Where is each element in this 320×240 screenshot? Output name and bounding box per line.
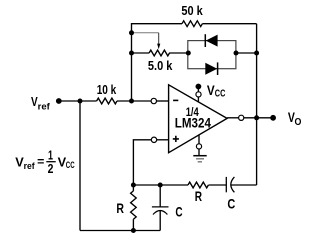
diode box rectangle — [188, 41, 236, 69]
diode D1 (top, pointing left) — [205, 34, 217, 47]
svg-text:R: R — [116, 200, 124, 216]
wire: top wire right segment — [202, 23, 256, 25]
wire: pot row left — [132, 52, 150, 54]
svg-text:C: C — [227, 196, 235, 212]
node: diode box left — [186, 51, 191, 56]
diode D2 (bottom, pointing right) — [205, 62, 217, 75]
svg-text:ref: ref — [38, 101, 51, 111]
svg-text:CC: CC — [66, 160, 75, 170]
node: RC row left — [131, 183, 136, 188]
terminal: Vref — [56, 98, 62, 104]
svg-text:=: = — [37, 157, 45, 169]
node: Vref branch — [78, 99, 83, 104]
wire: right vertical (output node) — [256, 24, 258, 185]
inverting input pin circle — [151, 98, 156, 103]
non-inverting input pin circle — [151, 137, 156, 142]
wire: C to right vertical — [231, 184, 257, 186]
op-amp U1 triangle — [169, 85, 228, 153]
wire: potentiometer wiper branch horizontal — [132, 32, 159, 34]
minus sign — [173, 99, 178, 101]
wire: bottom wire — [80, 230, 160, 232]
resistor 50 k zigzag — [182, 21, 202, 27]
svg-text:C: C — [175, 204, 182, 220]
ground pin circle — [196, 144, 201, 149]
output pin circle — [239, 115, 244, 120]
wire: wiper vertical stem — [158, 33, 160, 44]
svg-text:5.0 k: 5.0 k — [148, 59, 173, 73]
wire: Vref branch down left vertical — [79, 101, 81, 231]
wire: non-inverting input from node — [133, 140, 151, 185]
wire: plus circle to op-amp — [157, 139, 169, 141]
svg-text:R: R — [195, 188, 202, 204]
wire: Vref input row — [59, 100, 97, 102]
VCC pin circle — [196, 92, 201, 97]
wire: R to C — [209, 184, 227, 186]
resistor R (vertical) — [132, 185, 134, 191]
node: RC row C top — [158, 183, 163, 188]
VCC stem — [197, 88, 199, 102]
node: diode box right — [234, 51, 239, 56]
wire: diode box to right vertical — [236, 52, 257, 54]
svg-text:10 k: 10 k — [97, 83, 117, 97]
node: inverting input — [129, 99, 134, 104]
ground stem upper — [198, 135, 200, 144]
node: output junction — [254, 115, 259, 120]
resistor 10 k zigzag — [97, 98, 117, 104]
node: wiper junction — [129, 30, 134, 35]
wire: 10 k to inverting input — [117, 100, 151, 102]
wire: node row to R — [133, 184, 188, 186]
ground stem lower — [198, 149, 200, 156]
wire: inverting circle to op-amp — [157, 100, 169, 102]
resistor 5.0 k zigzag — [149, 50, 169, 56]
svg-text:O: O — [295, 117, 302, 128]
svg-text:50 k: 50 k — [181, 4, 203, 18]
wire: output tip to circle — [227, 117, 239, 119]
terminal: VO — [270, 115, 276, 121]
VCC dot — [196, 84, 202, 90]
wire: pot row right to diode box — [169, 52, 188, 54]
svg-text:LM324: LM324 — [175, 114, 211, 130]
svg-text:1: 1 — [48, 149, 53, 163]
wire: left feedback vertical and top wire left segment — [132, 24, 183, 101]
wiper arrowhead — [157, 44, 160, 50]
ground bars — [193, 155, 206, 157]
plus sign — [173, 136, 179, 142]
resistor R (horizontal) zigzag — [188, 182, 208, 188]
node: bottom wire R — [131, 228, 136, 233]
capacitor C (vertical, curved plate) — [152, 185, 169, 231]
node: pot row junction — [129, 51, 134, 56]
svg-text:2: 2 — [48, 162, 54, 176]
wire: output to VO terminal — [244, 117, 273, 119]
formula Vref = 1/2 VCC — [15, 149, 75, 177]
svg-text:CC: CC — [215, 89, 226, 100]
capacitor C (horizontal, curved plate) — [226, 177, 234, 192]
svg-text:ref: ref — [24, 161, 36, 171]
node: right vertical at diode row — [254, 51, 259, 56]
